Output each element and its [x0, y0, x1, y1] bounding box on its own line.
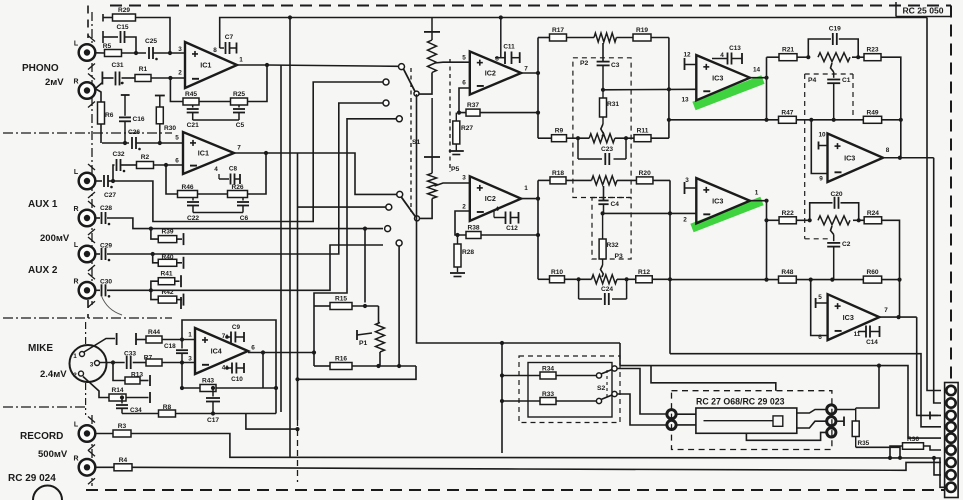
wire R6 drop from jack R [95, 89, 101, 103]
switch S1 moving contact upper [399, 64, 405, 70]
svg-text:R24: R24 [867, 210, 879, 217]
dashed box P3 [592, 198, 631, 260]
record jack R [73, 450, 95, 484]
switch S1 contact B0 [386, 204, 392, 210]
svg-text:13: 13 [681, 97, 689, 104]
wire P1 bottom [379, 352, 381, 366]
resistor R16 [330, 356, 352, 370]
junction output 1 [764, 199, 768, 203]
svg-text:4: 4 [222, 365, 226, 372]
resistor R25 [231, 91, 248, 105]
svg-text:8: 8 [495, 56, 499, 63]
switch S1 contact B2 [396, 240, 402, 246]
wire C22-C6 bottom [193, 212, 243, 214]
wire bus to R18 [538, 179, 550, 181]
switch S2 contact upper [596, 373, 601, 378]
wire C20 to node B2 [841, 203, 859, 221]
svg-text:R: R [73, 278, 78, 285]
dashed schematic border bottom [86, 489, 951, 491]
potentiometer P5 upper zigzag [428, 40, 437, 73]
pin 10 stub [819, 142, 828, 150]
junction [668, 277, 672, 281]
capacitor C23 loop [578, 138, 626, 165]
svg-text:IC3: IC3 [844, 153, 855, 162]
svg-text:R28: R28 [462, 249, 474, 256]
junction C24 left [577, 277, 581, 281]
wire riser to R15 loop [364, 229, 366, 303]
wire R16 right [353, 365, 417, 367]
svg-text:4: 4 [214, 166, 218, 173]
capacitor C31 [111, 62, 123, 85]
svg-text:R30: R30 [164, 125, 176, 132]
wire selector pivot bus down [417, 94, 621, 343]
resistor R15 [330, 296, 352, 310]
wire C33 to R7 [133, 362, 146, 364]
svg-text:4: 4 [495, 206, 499, 213]
junction riser/aux row [363, 227, 367, 231]
svg-text:IC1: IC1 [200, 61, 211, 70]
svg-text:7: 7 [222, 333, 226, 340]
svg-text:3: 3 [188, 356, 192, 363]
potentiometer P5 lower (volume) [424, 98, 440, 173]
wire R35 branch [856, 366, 879, 408]
wire R20 to bus [653, 179, 670, 181]
wire to R43 [182, 387, 200, 389]
svg-text:R13: R13 [131, 372, 143, 379]
junction [151, 252, 155, 256]
capacitor C27 [104, 175, 108, 187]
resistor R14 [109, 387, 126, 401]
svg-text:R49: R49 [866, 109, 878, 116]
green highlight marker lower [692, 201, 762, 228]
wire node A2 to C20 [810, 203, 833, 221]
switch S1 contact A3 [396, 116, 402, 122]
op-amp IC1 upper (phono L) [178, 42, 243, 88]
IC4 feedback frame [182, 320, 276, 414]
svg-text:14: 14 [753, 67, 761, 74]
resistor R26 [228, 184, 248, 198]
dashed schematic border left top segment [87, 6, 89, 39]
junction C3 bottom / pin13 row [601, 88, 605, 92]
wire jack to C29 [95, 253, 100, 255]
svg-text:R26: R26 [231, 184, 243, 191]
wire C27 node [108, 180, 113, 182]
svg-text:IC3: IC3 [712, 196, 723, 205]
junction [536, 71, 540, 75]
svg-text:7: 7 [524, 66, 528, 73]
svg-text:2мV: 2мV [45, 77, 64, 88]
junction feedback tap [168, 76, 172, 80]
terminal bar C31 [101, 72, 103, 85]
resistor R41 [158, 271, 175, 285]
polarity mark C31b [121, 82, 123, 84]
resistor R28 [454, 235, 474, 272]
svg-text:C9: C9 [232, 324, 241, 331]
junction [149, 288, 153, 292]
junction stair/bus [295, 427, 299, 431]
wire R46 to R26 [198, 193, 228, 195]
terminal bar R13 [149, 375, 151, 386]
wire jack to C28 [95, 217, 100, 219]
switch S1 contact A2 [383, 100, 389, 106]
svg-text:IC2: IC2 [485, 69, 496, 78]
svg-text:3: 3 [685, 177, 689, 184]
section divider dash-dot upper [3, 132, 172, 134]
svg-text:C26: C26 [128, 129, 140, 136]
terminal bar R39 [183, 233, 185, 245]
svg-text:R2: R2 [141, 154, 150, 161]
wire R44 to IC4 pin1 [162, 339, 195, 341]
wire aux1 L to selector [113, 82, 383, 222]
wire C32 to R2 [121, 164, 137, 166]
wire R33 to S2 [556, 400, 596, 402]
svg-text:2: 2 [683, 217, 687, 224]
svg-text:R: R [73, 206, 78, 213]
potentiometer P1 zigzag [376, 323, 385, 353]
wire tap to R41 [151, 281, 158, 290]
junction R34 feed [500, 373, 504, 377]
wire R37 to bus [480, 112, 538, 114]
svg-text:R15: R15 [335, 296, 347, 303]
wire R18 to pot [566, 179, 592, 181]
wire R1 to IC1a pin2 [151, 77, 185, 79]
junction R28 top [455, 233, 459, 237]
svg-text:IC1: IC1 [198, 149, 209, 158]
wire R25 to output [248, 65, 268, 102]
resistor R24 [864, 210, 882, 224]
svg-text:1: 1 [239, 57, 243, 64]
svg-text:R4: R4 [119, 457, 128, 464]
wire R29 loop left stub [102, 14, 104, 22]
record jack L [74, 417, 95, 451]
wire IC1b out to selector [266, 153, 397, 194]
svg-text:R38: R38 [467, 225, 479, 232]
svg-text:C25: C25 [145, 38, 157, 45]
capacitor C34 (mike) [116, 398, 142, 415]
resistor R23 [864, 47, 881, 61]
dashed schematic border left lower segment [87, 300, 89, 318]
svg-text:1: 1 [524, 185, 528, 192]
wire aux2 R to selector [107, 245, 383, 290]
svg-text:R36: R36 [907, 436, 919, 443]
junction node A2 [808, 218, 812, 222]
polarity mark C26 [138, 148, 141, 151]
wire plug to block lower [676, 424, 696, 426]
svg-text:5: 5 [462, 55, 466, 62]
svg-text:R34: R34 [542, 366, 554, 373]
wire R40 end [177, 262, 182, 264]
wire contact R1 to R35 node [836, 409, 856, 411]
svg-text:C5: C5 [236, 122, 245, 129]
wire wiper to IC2a pin5 [464, 61, 470, 63]
svg-text:R9: R9 [555, 128, 564, 135]
junction R13 tap [111, 360, 115, 364]
wire jack L to R5 [95, 52, 104, 54]
junction rail/C11 drop [499, 15, 503, 19]
bus wire selector riser mike [314, 119, 396, 306]
wiper P2 lower [603, 186, 605, 201]
junction IC1b output [264, 151, 268, 155]
junction C24 right [625, 277, 629, 281]
junction C34 top [120, 395, 124, 399]
junction node B2 [857, 218, 861, 222]
op-amp IC3 bottom-right [818, 294, 888, 341]
potentiometer P4 zigzag [818, 53, 850, 62]
svg-text:R22: R22 [782, 210, 794, 217]
svg-text:R37: R37 [467, 102, 479, 109]
record shield dash-dot line [91, 415, 93, 486]
capacitor C28 [100, 205, 112, 224]
wire R13 end [140, 380, 149, 382]
resistor R2 [137, 154, 154, 169]
wire stub to C15 [103, 36, 118, 38]
wire block to contact R1 [797, 410, 827, 414]
wire IC3d output 7 [879, 316, 916, 318]
resistor R17 [550, 27, 567, 41]
junction output 14 [764, 76, 768, 80]
wire R2 to IC1b pin6 [154, 164, 184, 166]
wire R10 to pot [565, 278, 592, 280]
capacitor C30 [100, 279, 112, 297]
plug contact right 1 [827, 405, 836, 414]
input shield dash-dot line [91, 12, 93, 305]
svg-text:R46: R46 [181, 184, 193, 191]
wiper P5 upper [435, 61, 465, 64]
capacitor C6 [237, 198, 249, 223]
dashed shield vertical lower [297, 420, 299, 482]
wire block bottom to contact R3 [746, 432, 826, 440]
resistor R9 [552, 128, 567, 142]
wire IC1a out to selector [267, 65, 399, 66]
phono input jack R [73, 74, 95, 108]
resistor R22 [779, 210, 796, 224]
capacitor C3 [597, 62, 620, 90]
svg-text:MIKE: MIKE [28, 343, 53, 354]
wire R9 to pot [567, 137, 590, 139]
mike shield dash-dot line upper [85, 322, 87, 344]
wire R17 to pot P2 [567, 37, 595, 39]
solid box S2 [528, 363, 612, 418]
polarity mark C27 [110, 186, 113, 189]
svg-text:R5: R5 [103, 43, 112, 50]
dashed box P4 bottom edge [805, 238, 830, 240]
terminal bar R40 [183, 257, 185, 269]
resistor R33 [540, 391, 556, 405]
wire R34 to S2 [556, 375, 596, 377]
svg-text:R8: R8 [163, 404, 172, 411]
junction pin9/R47 row [809, 118, 813, 122]
connector pin 1 [946, 386, 955, 395]
bus wire tone right lower [669, 180, 671, 353]
junction R27 top [457, 111, 461, 115]
resistor R1 [135, 66, 151, 82]
svg-text:L: L [74, 242, 79, 249]
wire to R15 [314, 305, 330, 307]
junction [667, 118, 671, 122]
wire R39 end [177, 238, 182, 240]
op-amp IC3 lower-left (highlighted) [683, 177, 759, 224]
ground below R28 [450, 273, 465, 277]
wire R38 to bus [481, 234, 538, 236]
polarity mark C25 [155, 58, 158, 61]
switch S1 moving contact lower [397, 191, 403, 197]
op-amp IC4 (mike) [188, 328, 255, 374]
wire DIN pin1 to plug [84, 339, 115, 353]
potentiometer P5 upper (volume) [424, 18, 440, 41]
bus wire left vertical 3 [297, 153, 299, 420]
wire aux2 L to selector [107, 103, 383, 254]
plug contact right 3 [827, 428, 836, 437]
svg-text:IC4: IC4 [211, 347, 222, 356]
wire tap to R39 [151, 229, 158, 240]
wire pot to R20 [617, 179, 637, 181]
wire feedback vertical IC3c [766, 201, 768, 280]
junction [536, 111, 540, 115]
svg-text:R10: R10 [551, 269, 563, 276]
svg-text:R60: R60 [866, 269, 878, 276]
wire pot to R19 [616, 37, 633, 39]
wiper hook lower pot upper network [601, 124, 604, 137]
svg-text:3: 3 [178, 46, 182, 53]
svg-text:R40: R40 [161, 254, 173, 261]
resistor R43 [200, 378, 216, 392]
terminal bar R14 [149, 392, 151, 403]
svg-text:R: R [73, 79, 78, 86]
svg-text:P5: P5 [451, 166, 460, 173]
wire tap to R42 [151, 290, 158, 299]
wire up to C32 [113, 165, 115, 181]
wire record stair [246, 414, 298, 430]
junction loop input [312, 350, 316, 354]
connector pin 5 [946, 433, 955, 442]
svg-text:2.4мV: 2.4мV [40, 369, 67, 380]
jumper block square [773, 416, 783, 426]
switch S2 dashed gang [606, 370, 608, 400]
wire pot to R11 [615, 137, 634, 139]
capacitor C19 [829, 26, 841, 46]
wire R43 to frame [216, 387, 276, 389]
wire to R33 [502, 400, 540, 402]
resistor R45 [183, 91, 199, 105]
svg-text:R35: R35 [858, 440, 870, 447]
resistor R19 [633, 27, 651, 41]
resistor R12 [636, 269, 653, 283]
plug contact left lower [667, 420, 676, 429]
svg-text:C24: C24 [601, 286, 613, 293]
section divider dash-dot lower [3, 317, 172, 319]
svg-text:R27: R27 [461, 125, 473, 132]
junction [149, 227, 153, 231]
svg-text:R44: R44 [148, 329, 160, 336]
resistor R60 [863, 269, 881, 283]
junction C16 bottom [123, 141, 127, 145]
wire pivot to volume pot lower [419, 199, 432, 219]
junction rail/left bus [288, 15, 292, 19]
wire R24 right vertical [882, 220, 900, 317]
junction IC4 output [261, 350, 265, 354]
svg-text:R6: R6 [105, 112, 114, 119]
svg-text:C4: C4 [611, 201, 620, 208]
wire R23 right vertical [881, 57, 901, 158]
resistor R40 [158, 254, 177, 266]
svg-text:C32: C32 [112, 151, 124, 158]
wire R13 stub [113, 363, 125, 381]
wire jack to C27 [95, 180, 102, 182]
svg-text:R43: R43 [202, 378, 214, 385]
capacitor C11 at IC2a pin 8 [495, 18, 520, 65]
wire S2 feed drop [619, 343, 621, 366]
svg-text:R47: R47 [781, 109, 793, 116]
svg-text:R12: R12 [638, 269, 650, 276]
connector pin 9 [946, 483, 955, 492]
wire C15 to input node [125, 37, 137, 53]
switch S1 pivot upper [414, 91, 419, 96]
wire C31 to R1 [122, 77, 136, 79]
junction center drop [500, 341, 504, 345]
capacitor C4 [598, 197, 619, 213]
capacitor C2 [827, 235, 851, 280]
supply rail wire [220, 18, 927, 49]
resistor R38 [466, 225, 481, 239]
potentiometer zigzag lower right [818, 216, 850, 225]
wire R22 to node A2 [796, 219, 809, 221]
svg-text:R45: R45 [185, 91, 197, 98]
phono input jack L [74, 36, 95, 70]
svg-text:P4: P4 [808, 77, 817, 84]
resistor R5 [103, 43, 122, 57]
wire R11 to bus [651, 137, 669, 139]
loop frame right [378, 306, 380, 323]
resistor R44 [146, 329, 162, 343]
wire R48 row left [670, 279, 779, 281]
aux2 input jack R [73, 273, 95, 307]
loop frame left [313, 306, 315, 366]
wire pin2 to R45 [170, 78, 183, 102]
bus wire left vertical 1 [280, 65, 282, 412]
resistor R39 [158, 229, 177, 243]
wire R4 long to connector [133, 462, 942, 470]
resistor R13 [125, 372, 143, 385]
svg-text:R16: R16 [335, 356, 347, 363]
svg-text:7: 7 [237, 145, 241, 152]
wire IC2a pin6 to R37 [459, 88, 470, 113]
resistor R29 [113, 7, 136, 21]
svg-text:C16: C16 [133, 116, 145, 123]
capacitor C5 [233, 105, 245, 129]
junction node B [856, 55, 860, 59]
junction feedback/R48 [764, 278, 768, 282]
wire S2 to connector box upper [617, 369, 668, 415]
pin 3 stub [685, 182, 697, 194]
wire node B2 to R24 [853, 219, 864, 221]
plug contact left upper [667, 410, 676, 419]
capacitor C9 at IC4 pin 7 [227, 324, 244, 343]
wire jack to R3 [95, 433, 113, 435]
resistor R8 [159, 404, 176, 417]
svg-text:R39: R39 [161, 229, 173, 236]
resistor R36 [903, 436, 924, 449]
stub capacitor at contact R2 [836, 417, 844, 427]
svg-text:C33: C33 [124, 351, 136, 358]
junction C2 bottom [830, 278, 834, 282]
svg-text:R29: R29 [118, 7, 130, 14]
wire aux1 R to selector [107, 218, 383, 229]
connector pin 6 [946, 445, 955, 454]
wire DIN pin2 to R14 [83, 377, 109, 398]
svg-text:C3: C3 [611, 62, 620, 69]
dashed box P4 right edge [852, 74, 854, 120]
svg-text:10: 10 [818, 132, 826, 139]
